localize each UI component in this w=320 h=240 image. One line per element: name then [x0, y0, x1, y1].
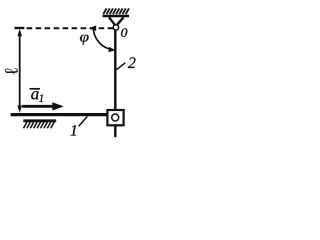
dashed horizontal line: [15, 27, 25, 29]
slider circle: [112, 114, 119, 121]
arc end arrowhead: [108, 47, 115, 52]
bar 1: [11, 113, 108, 116]
a1 vector label: [30, 88, 41, 90]
label 1 with tick: [79, 117, 88, 127]
rod 2: [114, 30, 116, 137]
label l: [5, 68, 18, 75]
bottom arrowhead: [17, 106, 22, 113]
label phi: [80, 35, 89, 45]
top arrowhead: [17, 29, 22, 36]
pivot circle O: [113, 25, 118, 30]
pivot support triangle: [109, 17, 124, 25]
label 2 with tick: [117, 63, 126, 70]
thick acceleration arrow: [22, 105, 55, 108]
ground line: [23, 119, 56, 122]
arc left arrowhead: [89, 25, 96, 31]
ground hatching: [24, 122, 55, 128]
angle arc: [93, 28, 112, 50]
slider square: [107, 110, 123, 125]
label O: [121, 28, 127, 36]
vertical measure line: [19, 33, 21, 108]
ceiling hatching: [103, 8, 129, 14]
ceiling line: [103, 15, 130, 18]
